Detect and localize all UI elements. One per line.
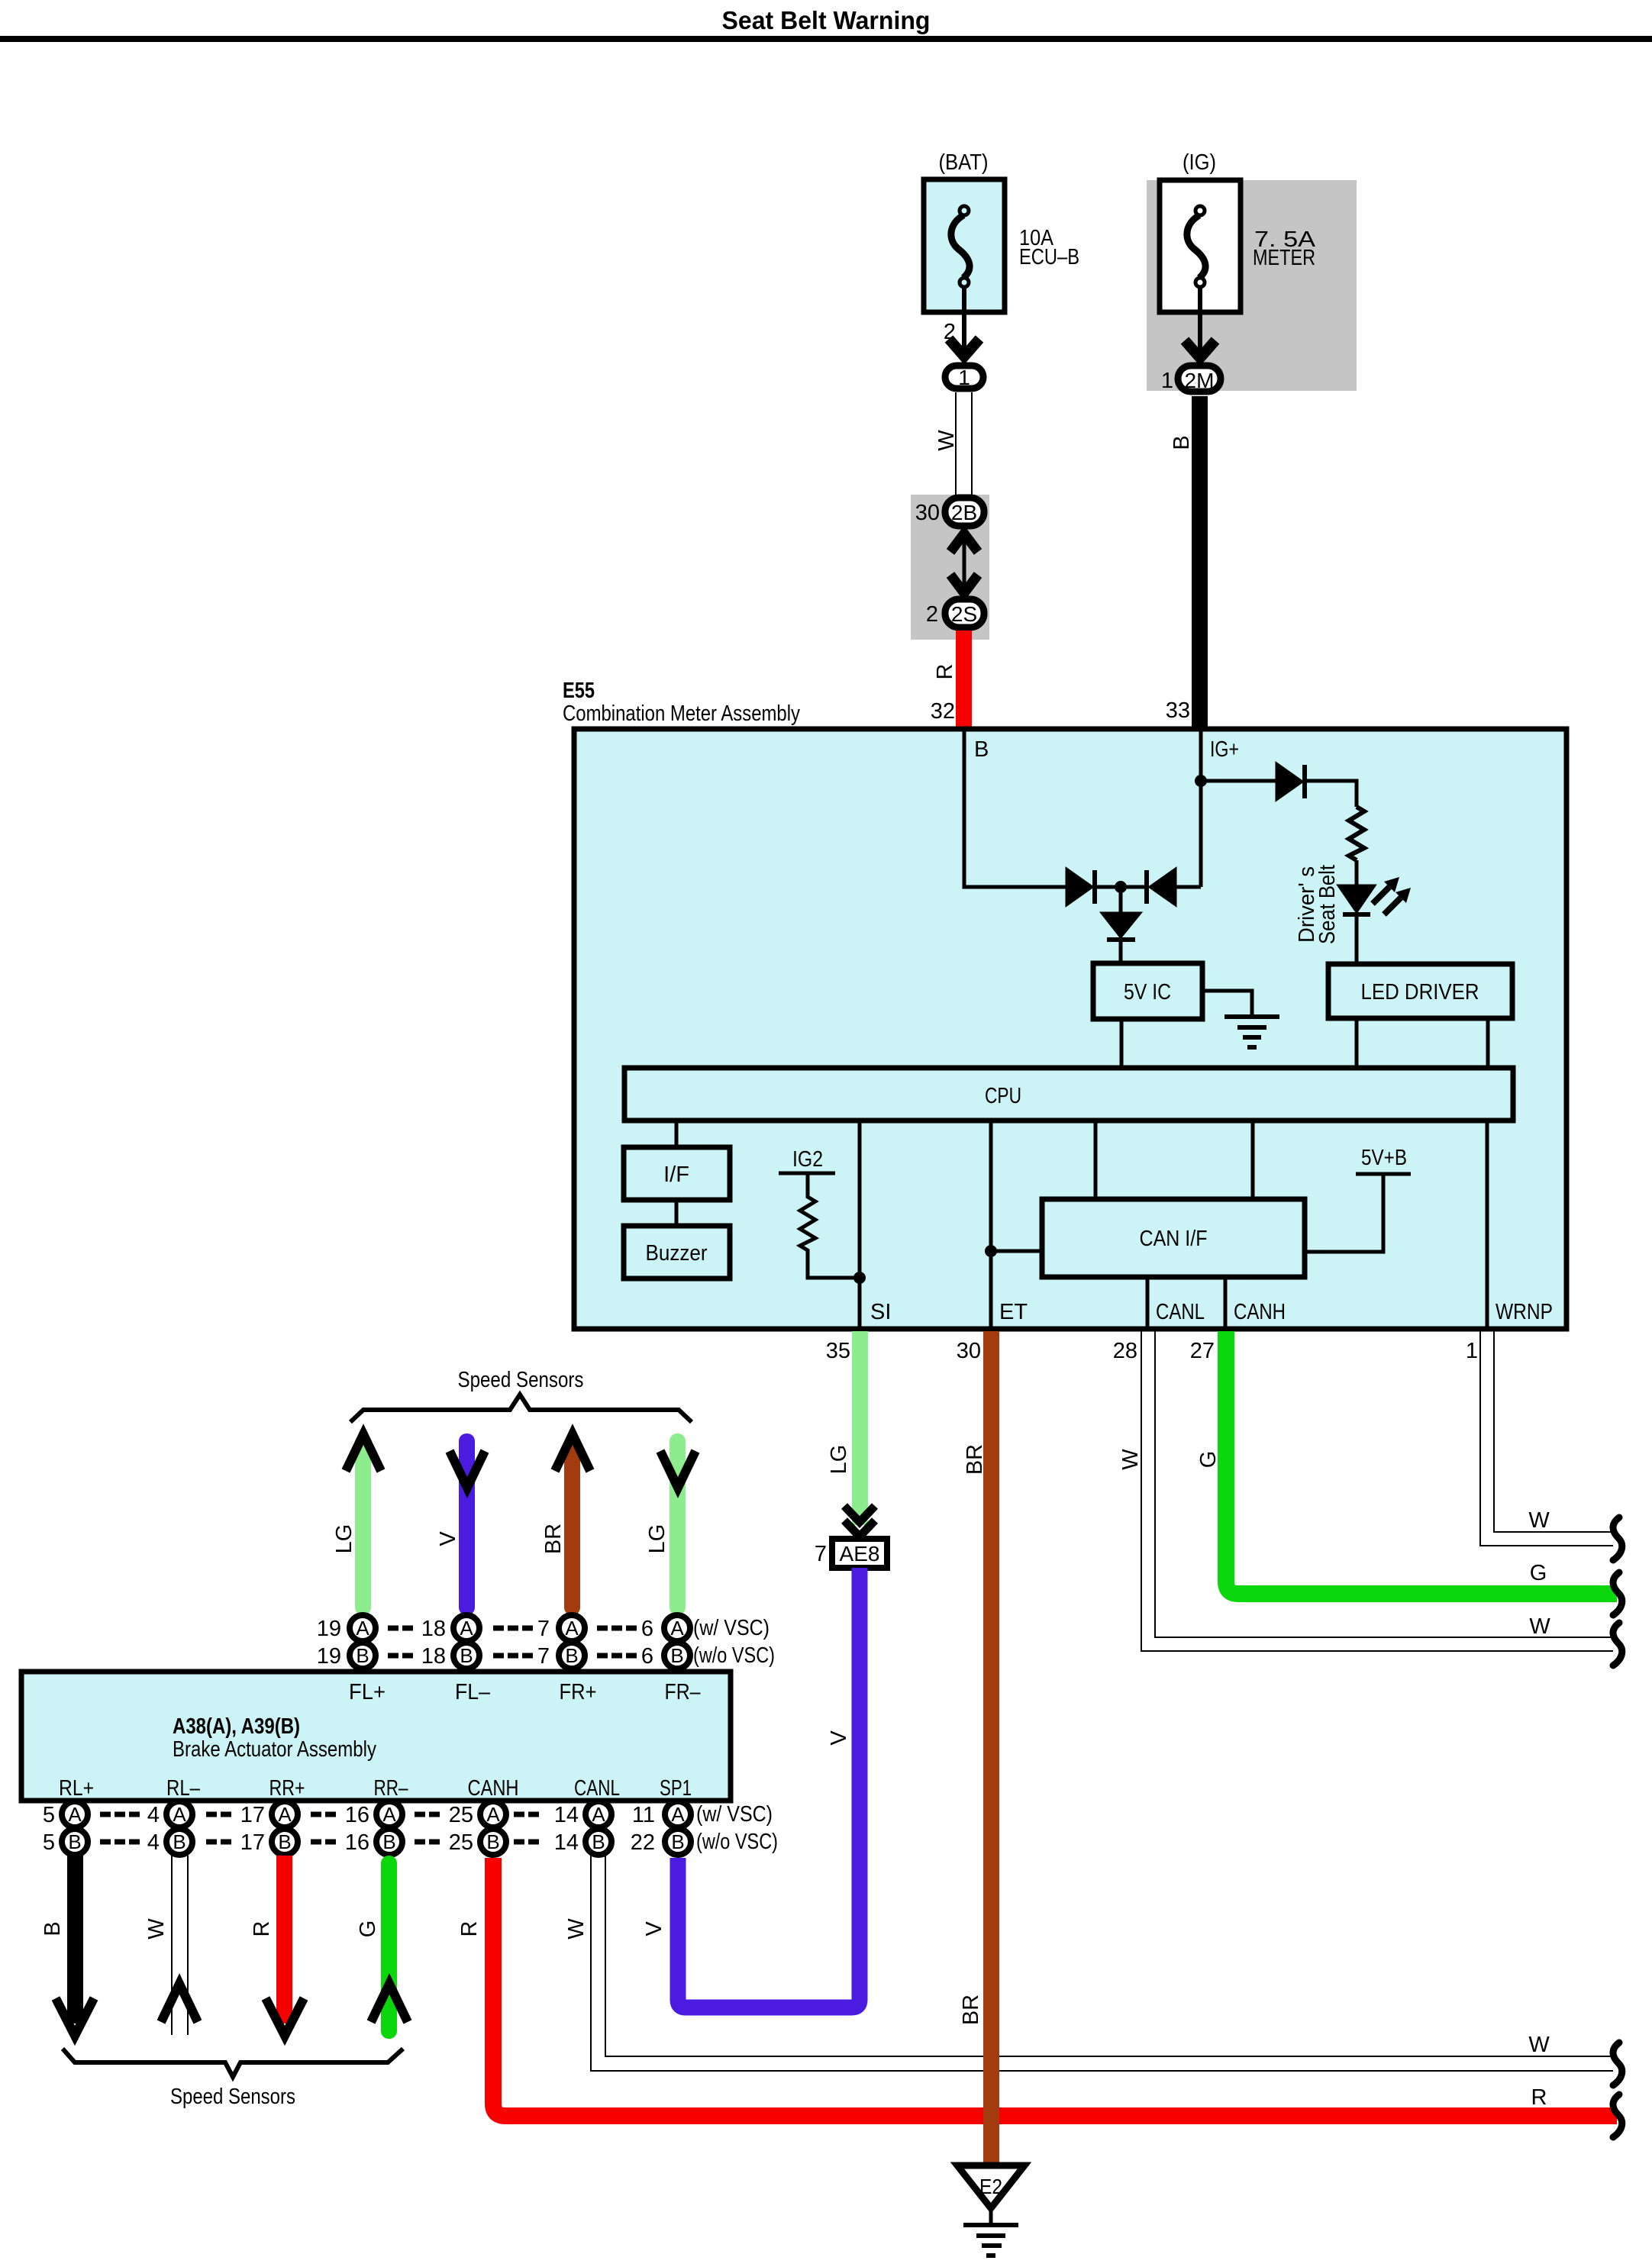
svg-text:R: R bbox=[457, 1921, 482, 1937]
svg-text:Speed Sensors: Speed Sensors bbox=[458, 1368, 584, 1392]
double arrow between 2B and 2S bbox=[963, 534, 966, 594]
svg-text:7: 7 bbox=[815, 1542, 827, 1566]
node junction dot ET bbox=[985, 1245, 997, 1257]
svg-text:A38(A), A39(B): A38(A), A39(B) bbox=[173, 1714, 300, 1739]
wire B (black) 2M to E55 pin 33 bbox=[1192, 396, 1208, 730]
connector 2B oval bbox=[945, 498, 984, 526]
svg-text:6: 6 bbox=[641, 1644, 653, 1669]
wire FL+ LG with up arrow bbox=[355, 1438, 371, 1615]
wire BR crossing overlay (brown over red) bbox=[983, 2048, 999, 2132]
dashes row B bottom group bbox=[100, 1840, 539, 1845]
dashes row A top group bbox=[388, 1626, 637, 1631]
svg-text:Buzzer: Buzzer bbox=[646, 1241, 708, 1266]
svg-text:LG: LG bbox=[645, 1524, 670, 1554]
svg-text:RR–: RR– bbox=[374, 1776, 409, 1801]
arrow into connector 2M bbox=[1185, 340, 1215, 358]
svg-text:G: G bbox=[1196, 1451, 1221, 1469]
svg-text:B: B bbox=[382, 1830, 395, 1853]
fuse METER symbol bbox=[1187, 206, 1205, 287]
wire G (CANH pin 27) green down and right bbox=[1226, 1331, 1617, 1594]
svg-text:CANH: CANH bbox=[1234, 1300, 1286, 1324]
svg-text:30: 30 bbox=[957, 1339, 981, 1363]
svg-text:Brake Actuator Assembly: Brake Actuator Assembly bbox=[173, 1737, 376, 1762]
svg-text:19: 19 bbox=[317, 1644, 341, 1669]
svg-text:A: A bbox=[565, 1617, 579, 1640]
wire CANH internal bbox=[1224, 1277, 1228, 1327]
wire ET to CAN I/F bbox=[991, 1250, 1042, 1253]
diode D1 (B side, pointing right) bbox=[1066, 869, 1092, 905]
break squiggle W bbox=[1613, 2043, 1622, 2085]
wire W (CANL pin 28) white wire down and right bbox=[1141, 1331, 1613, 1651]
svg-text:16: 16 bbox=[345, 1830, 369, 1855]
svg-text:FL+: FL+ bbox=[349, 1680, 386, 1704]
svg-text:W: W bbox=[1528, 2033, 1550, 2057]
svg-text:30: 30 bbox=[915, 501, 940, 525]
diode D3 (down to 5V IC) bbox=[1119, 887, 1123, 913]
break squiggle R bbox=[1613, 2094, 1622, 2137]
svg-text:5: 5 bbox=[43, 1830, 55, 1855]
svg-text:BR: BR bbox=[541, 1524, 566, 1554]
svg-text:A: A bbox=[68, 1803, 82, 1826]
svg-text:RR+: RR+ bbox=[269, 1776, 305, 1801]
wire W (CANL 14B) white down then right bbox=[591, 1856, 1613, 2071]
svg-text:W: W bbox=[1118, 1449, 1143, 1470]
wire R (red) 2S to E55 pin 32 bbox=[956, 630, 972, 730]
svg-text:BR: BR bbox=[963, 1444, 987, 1475]
arrow into connector 1 bbox=[949, 339, 979, 356]
junction block gray box 2B/2S bbox=[911, 495, 989, 640]
svg-text:27: 27 bbox=[1190, 1339, 1215, 1363]
5V IC box bbox=[1093, 963, 1202, 1019]
svg-text:R: R bbox=[1531, 2085, 1547, 2110]
svg-text:G: G bbox=[1530, 1561, 1547, 1585]
svg-text:R: R bbox=[250, 1921, 274, 1937]
svg-text:A: A bbox=[670, 1617, 684, 1640]
dashes row A bottom group bbox=[100, 1812, 539, 1817]
I/F box bbox=[624, 1147, 730, 1200]
svg-text:FR+: FR+ bbox=[560, 1680, 597, 1704]
pin numbers row B bottom group bbox=[43, 1830, 655, 1855]
svg-text:V: V bbox=[642, 1921, 666, 1936]
svg-text:Combination Meter Assembly: Combination Meter Assembly bbox=[563, 701, 800, 726]
ground (5V IC) bbox=[1202, 991, 1252, 1017]
svg-text:(w/o VSC): (w/o VSC) bbox=[696, 1830, 778, 1854]
svg-text:R: R bbox=[933, 664, 957, 680]
Brake Actuator Assembly box bbox=[21, 1672, 731, 1801]
CPU box bbox=[624, 1068, 1513, 1121]
svg-text:4: 4 bbox=[147, 1830, 160, 1855]
node junction dot IG+ branch bbox=[1195, 775, 1207, 787]
svg-text:BR: BR bbox=[959, 1995, 983, 2025]
wire W (white) connector 1 to 2B bbox=[955, 392, 957, 496]
svg-text:14: 14 bbox=[554, 1830, 579, 1855]
wires LED DRIVER to CPU bbox=[1355, 1018, 1359, 1068]
svg-text:B: B bbox=[40, 1921, 65, 1936]
svg-text:5V+B: 5V+B bbox=[1361, 1146, 1407, 1170]
svg-text:6: 6 bbox=[641, 1617, 653, 1641]
svg-text:18: 18 bbox=[421, 1617, 446, 1641]
svg-text:Speed Sensors: Speed Sensors bbox=[170, 2085, 295, 2109]
svg-text:SP1: SP1 bbox=[660, 1776, 692, 1801]
svg-text:AE8: AE8 bbox=[840, 1542, 880, 1566]
svg-text:CANL: CANL bbox=[1156, 1300, 1205, 1324]
svg-text:B: B bbox=[486, 1830, 499, 1853]
pin numbers row A bottom group bbox=[43, 1803, 655, 1827]
svg-text:Seat Belt Warning: Seat Belt Warning bbox=[722, 6, 931, 34]
svg-text:1: 1 bbox=[1161, 369, 1173, 393]
svg-text:CANL: CANL bbox=[574, 1776, 620, 1801]
svg-text:1: 1 bbox=[1466, 1339, 1478, 1363]
wire BR (ET pin 30 to E2) bbox=[983, 1331, 999, 2165]
fuse ECU-B symbol bbox=[951, 206, 970, 287]
svg-text:B: B bbox=[173, 1830, 186, 1853]
node junction dot SI bbox=[853, 1272, 866, 1284]
fuse ECU-B box bbox=[924, 179, 1005, 312]
svg-text:A: A bbox=[356, 1617, 369, 1640]
wire SI bbox=[858, 1121, 862, 1327]
wire IG+ to diode D4 bbox=[1201, 779, 1278, 783]
connector AE8 box bbox=[832, 1539, 887, 1568]
svg-text:A: A bbox=[460, 1617, 473, 1640]
svg-text:22: 22 bbox=[631, 1830, 655, 1855]
wire ET bbox=[989, 1121, 993, 1327]
svg-text:A: A bbox=[278, 1803, 292, 1826]
arrow double chevron into AE8 bbox=[844, 1506, 875, 1522]
svg-text:(w/ VSC): (w/ VSC) bbox=[693, 1616, 770, 1640]
svg-text:B: B bbox=[671, 1830, 684, 1853]
svg-text:LG: LG bbox=[827, 1445, 851, 1475]
svg-text:25: 25 bbox=[449, 1830, 473, 1855]
wire 5V+B to CAN I/F bbox=[1305, 1174, 1383, 1252]
svg-text:32: 32 bbox=[931, 699, 955, 724]
svg-text:B: B bbox=[592, 1830, 605, 1853]
svg-text:CAN I/F: CAN I/F bbox=[1140, 1227, 1208, 1251]
svg-text:18: 18 bbox=[421, 1644, 446, 1669]
wire FR+ BR with up arrow bbox=[564, 1438, 580, 1615]
svg-text:IG+: IG+ bbox=[1210, 737, 1239, 762]
svg-text:Seat Belt: Seat Belt bbox=[1315, 865, 1340, 944]
svg-text:FR–: FR– bbox=[665, 1680, 702, 1704]
svg-text:CPU: CPU bbox=[985, 1084, 1021, 1108]
svg-text:WRNP: WRNP bbox=[1496, 1300, 1553, 1324]
wire B (RL+ 5B) black with down arrow bbox=[67, 1856, 83, 2024]
svg-text:7: 7 bbox=[537, 1644, 550, 1669]
svg-text:16: 16 bbox=[345, 1803, 369, 1827]
connector 2S oval bbox=[945, 599, 984, 627]
svg-text:A: A bbox=[382, 1803, 396, 1826]
svg-text:LED DRIVER: LED DRIVER bbox=[1361, 980, 1479, 1005]
svg-text:2M: 2M bbox=[1185, 369, 1215, 392]
gray block around METER fuse bbox=[1147, 180, 1357, 391]
wire fuse to connector 1 bbox=[962, 288, 966, 359]
wire V (AE8 down, left, up to SP1 22B) bbox=[678, 1568, 860, 2007]
5V+B rail bar bbox=[1356, 1172, 1411, 1176]
svg-text:V: V bbox=[436, 1531, 460, 1546]
connectors row B (bottom group) bbox=[62, 1829, 691, 1855]
wire LED to LED DRIVER bbox=[1355, 914, 1359, 964]
ground E2 triangle bbox=[957, 2165, 1024, 2208]
svg-text:ET: ET bbox=[999, 1300, 1028, 1324]
title rule bbox=[0, 36, 1652, 42]
svg-text:B: B bbox=[670, 1644, 683, 1667]
dashes row B top group bbox=[388, 1653, 637, 1659]
svg-text:CANH: CANH bbox=[468, 1776, 519, 1801]
svg-text:B: B bbox=[460, 1644, 473, 1667]
connectors row A (bottom group) bbox=[62, 1801, 691, 1827]
svg-text:35: 35 bbox=[826, 1339, 850, 1363]
svg-text:E2: E2 bbox=[979, 2175, 1002, 2198]
svg-text:W: W bbox=[1528, 1508, 1550, 1533]
svg-text:4: 4 bbox=[147, 1803, 160, 1827]
wire I/F to Buzzer bbox=[675, 1200, 679, 1226]
pin numbers row A top group bbox=[317, 1617, 653, 1641]
wire WRNP bbox=[1486, 1121, 1489, 1327]
svg-text:W: W bbox=[1529, 1614, 1550, 1639]
break squiggle WRNP W bbox=[1613, 1517, 1622, 1560]
break squiggle CANH G bbox=[1613, 1572, 1622, 1615]
connector 1 oval bbox=[945, 366, 983, 389]
svg-text:28: 28 bbox=[1113, 1339, 1137, 1363]
svg-text:A: A bbox=[671, 1803, 685, 1826]
svg-text:METER: METER bbox=[1253, 246, 1315, 270]
connector 2M oval bbox=[1178, 366, 1221, 392]
svg-text:B: B bbox=[356, 1644, 369, 1667]
svg-text:A: A bbox=[173, 1803, 186, 1826]
svg-text:RL–: RL– bbox=[166, 1776, 201, 1801]
svg-text:25: 25 bbox=[449, 1803, 473, 1827]
wire FL- V with down arrow bbox=[459, 1433, 475, 1615]
LED Driver's Seat Belt indicator bbox=[1338, 885, 1375, 912]
svg-text:17: 17 bbox=[240, 1830, 265, 1855]
svg-text:E55: E55 bbox=[563, 679, 595, 703]
pin numbers row B top group bbox=[317, 1644, 653, 1669]
wire IG+ internal bbox=[1199, 731, 1203, 887]
svg-text:G: G bbox=[356, 1920, 380, 1938]
svg-text:ECU–B: ECU–B bbox=[1019, 245, 1079, 269]
svg-text:7: 7 bbox=[537, 1617, 550, 1641]
wire W (WRNP pin 1) white wire down and right bbox=[1480, 1331, 1613, 1546]
brace under speed sensors (bottom) bbox=[63, 2049, 403, 2077]
ground E2 stem and bars bbox=[989, 2208, 993, 2224]
brace over speed sensors bbox=[350, 1395, 692, 1422]
wire R (RR+ 17B) red with down arrow bbox=[276, 1856, 292, 2024]
svg-text:1: 1 bbox=[958, 366, 970, 389]
svg-text:B: B bbox=[1170, 435, 1194, 450]
svg-text:A: A bbox=[592, 1803, 605, 1826]
svg-text:B: B bbox=[974, 737, 989, 762]
wire resistor to LED bbox=[1355, 860, 1359, 887]
wire FR- LG with down arrow bbox=[670, 1433, 686, 1615]
wire G (RR- 16B) green with up arrow bbox=[381, 1856, 397, 2039]
CAN I/F box bbox=[1042, 1199, 1305, 1277]
svg-text:(IG): (IG) bbox=[1183, 150, 1216, 175]
wire CPU to I/F bbox=[675, 1121, 679, 1147]
wires CPU to CAN I/F bbox=[1094, 1121, 1098, 1199]
wire fuse to connector 2M bbox=[1198, 288, 1202, 360]
Buzzer box bbox=[624, 1226, 730, 1279]
svg-text:2S: 2S bbox=[951, 602, 977, 626]
svg-text:33: 33 bbox=[1166, 698, 1190, 723]
node junction dot bbox=[1115, 881, 1127, 893]
IG2 resistor bbox=[800, 1173, 860, 1278]
wire W (RL- 4B) white with up arrow bbox=[171, 1856, 173, 2035]
break squiggle CANL W bbox=[1613, 1623, 1622, 1666]
connectors row B (top group) bbox=[350, 1643, 690, 1669]
IG2 rail bar bbox=[779, 1172, 835, 1175]
svg-text:(BAT): (BAT) bbox=[939, 150, 989, 175]
svg-text:19: 19 bbox=[317, 1617, 341, 1641]
diode D2 (IG side, pointing left) bbox=[1144, 870, 1149, 904]
connectors row A (top group) bbox=[350, 1615, 690, 1641]
LED DRIVER box bbox=[1328, 964, 1512, 1018]
wire LG (SI pin 35) bbox=[852, 1331, 868, 1525]
svg-text:A: A bbox=[486, 1803, 500, 1826]
wire 5V IC to CPU bbox=[1120, 1019, 1124, 1068]
fuse METER box bbox=[1160, 180, 1241, 312]
svg-text:11: 11 bbox=[632, 1803, 655, 1827]
svg-text:17: 17 bbox=[240, 1803, 265, 1827]
svg-text:FL–: FL– bbox=[455, 1680, 491, 1704]
svg-text:2B: 2B bbox=[951, 501, 977, 524]
svg-text:14: 14 bbox=[554, 1803, 579, 1827]
svg-text:2: 2 bbox=[926, 602, 938, 627]
svg-text:5: 5 bbox=[43, 1803, 55, 1827]
diode D4 (to seat belt lamp, pointing right) bbox=[1276, 763, 1302, 800]
svg-text:B: B bbox=[565, 1644, 578, 1667]
svg-text:IG2: IG2 bbox=[792, 1147, 823, 1172]
svg-text:B: B bbox=[68, 1830, 81, 1853]
svg-text:W: W bbox=[144, 1918, 169, 1940]
wire B internal bbox=[964, 731, 1068, 887]
svg-text:(w/ VSC): (w/ VSC) bbox=[696, 1802, 773, 1827]
svg-text:LG: LG bbox=[332, 1524, 357, 1554]
svg-text:5V IC: 5V IC bbox=[1124, 980, 1171, 1005]
svg-text:SI: SI bbox=[870, 1300, 891, 1324]
svg-text:I/F: I/F bbox=[663, 1163, 689, 1187]
wire R (CANH 25B) red down then right bbox=[493, 1858, 1617, 2116]
svg-text:(w/o VSC): (w/o VSC) bbox=[693, 1643, 775, 1668]
resistor (lamp series) bbox=[1349, 807, 1364, 860]
svg-text:W: W bbox=[564, 1918, 589, 1940]
svg-text:W: W bbox=[934, 430, 959, 451]
E55 Combination Meter Assembly box bbox=[574, 729, 1566, 1329]
svg-text:B: B bbox=[278, 1830, 291, 1853]
svg-text:V: V bbox=[827, 1730, 851, 1746]
wire CANL internal bbox=[1146, 1277, 1150, 1327]
svg-text:RL+: RL+ bbox=[59, 1776, 94, 1801]
